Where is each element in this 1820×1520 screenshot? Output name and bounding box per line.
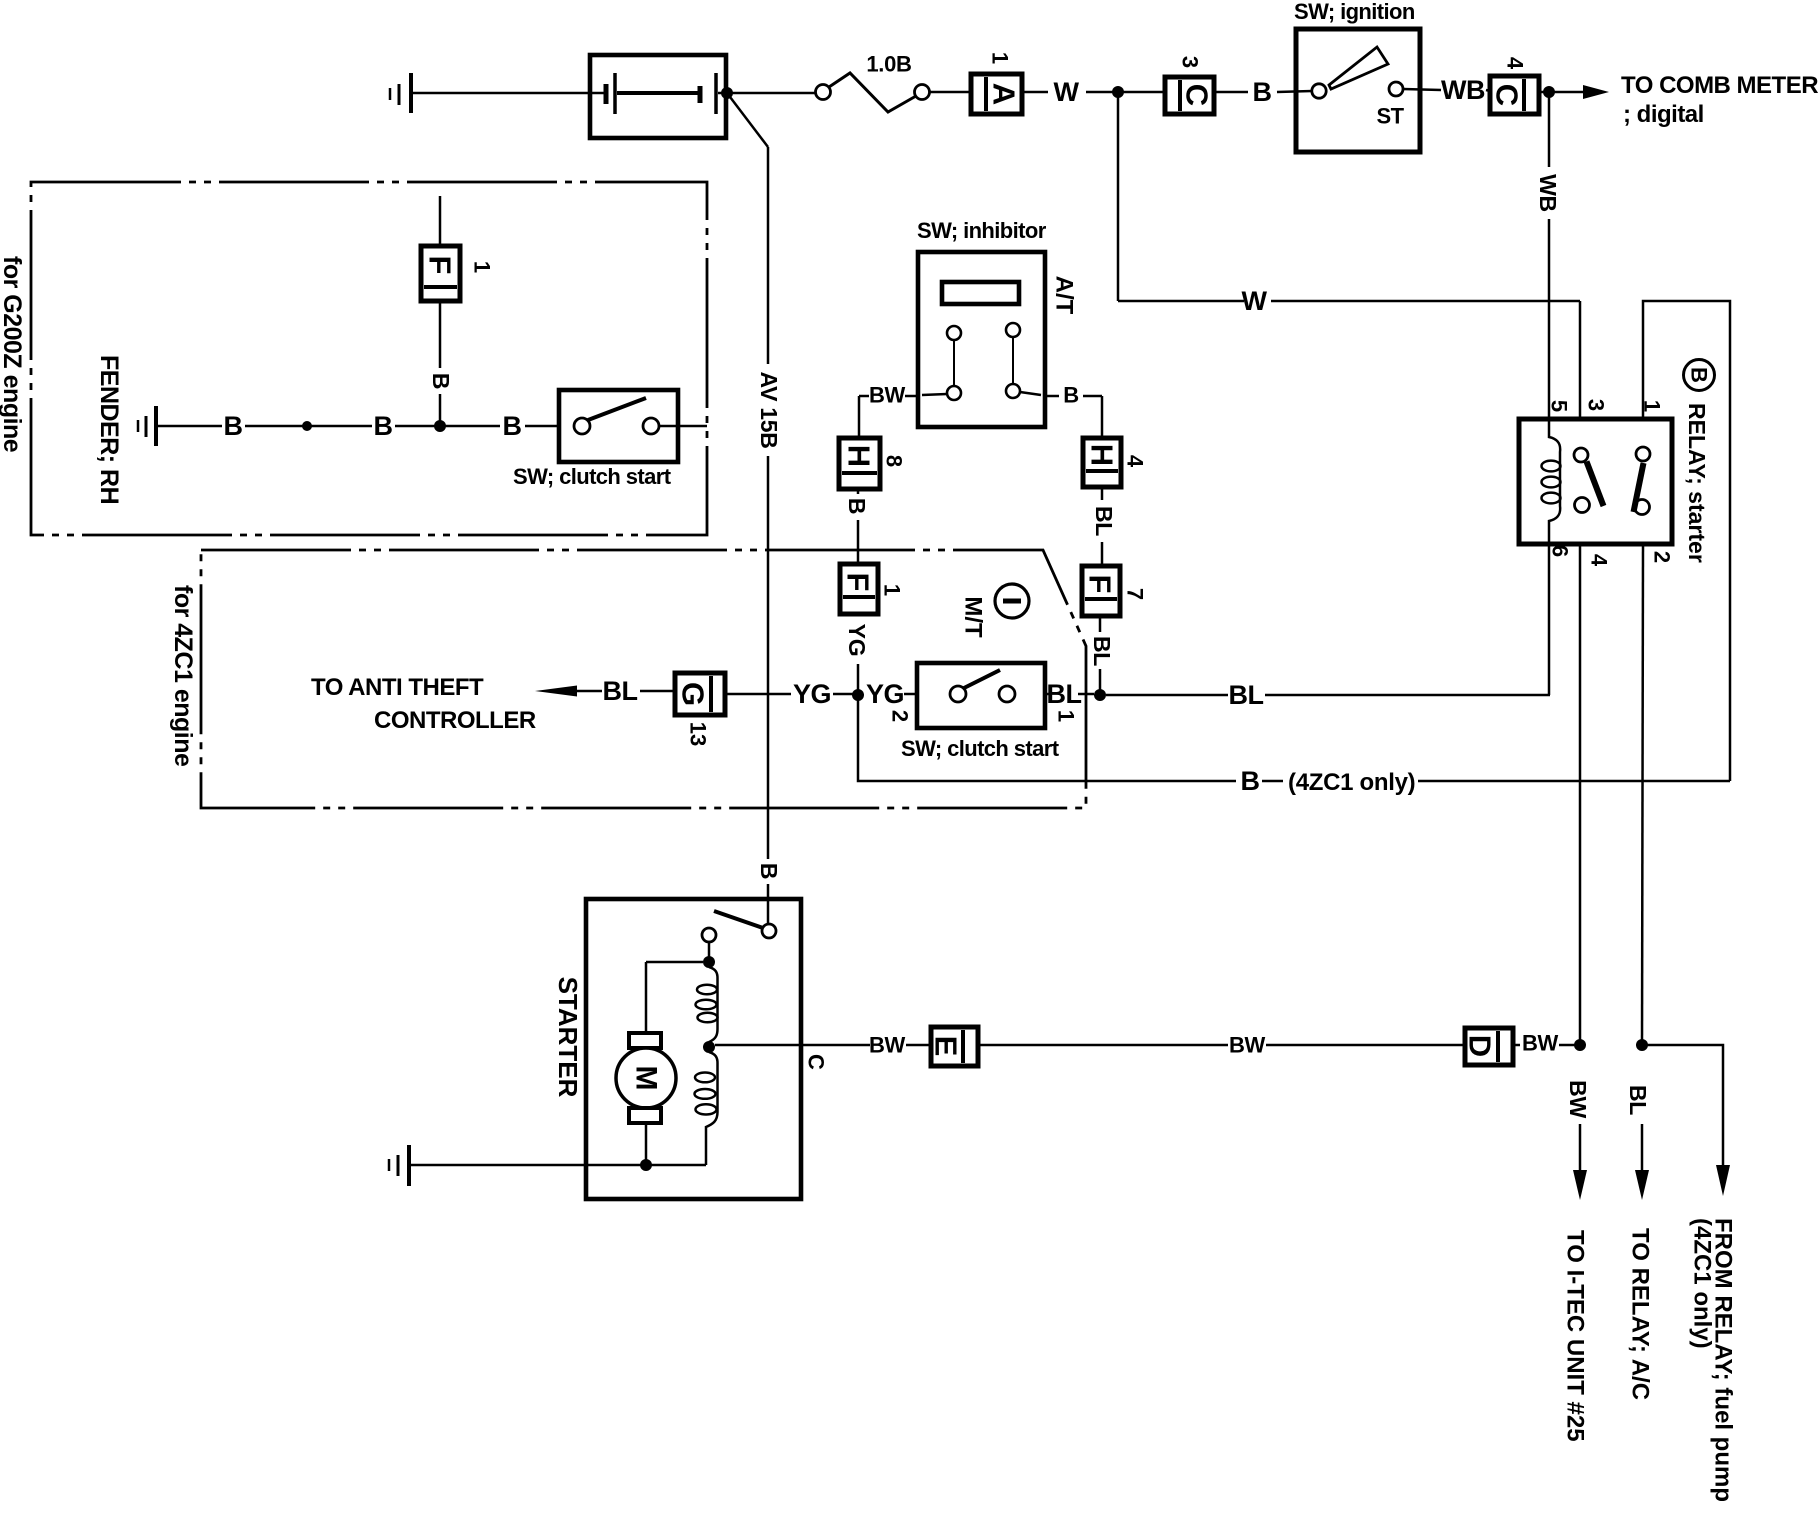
motor M [616,1033,676,1165]
wire relay pin 1 loop [1643,301,1730,781]
connector C pin 4 [1490,57,1540,114]
svg-text:13: 13 [686,722,711,746]
wire W branch to relay pin 3 [1118,97,1580,419]
wire battery to fusible link [718,92,815,95]
svg-text:BL: BL [603,676,638,706]
connector C pin 3 [1165,56,1215,114]
svg-text:W: W [1242,286,1268,316]
svg-text:SW; ignition: SW; ignition [1294,0,1415,24]
solenoid coil upper [696,967,718,1042]
svg-text:4: 4 [1587,554,1612,567]
svg-text:2: 2 [1650,551,1675,563]
wire link to connector A [930,91,971,94]
svg-text:A: A [987,83,1022,105]
relay coil [1542,419,1561,544]
svg-text:C: C [804,1054,829,1070]
wire H4 to F7, label BL [1091,487,1117,566]
svg-text:6: 6 [1548,545,1573,557]
wire relay pin 6 down [1548,544,1551,695]
svg-text:C: C [1180,84,1215,106]
svg-text:AV 15B: AV 15B [756,371,782,448]
wire H8 to inhibitor, label BW [859,383,918,439]
wire G13 to YG junction [725,679,858,709]
svg-text:WB: WB [1535,174,1561,212]
svg-text:8: 8 [882,455,907,467]
svg-text:(4ZC1 only): (4ZC1 only) [1288,769,1415,796]
arrow TO RELAY A/C [1625,1085,1654,1400]
STARTER box [586,899,801,1199]
node BW junction [1574,1039,1586,1051]
arrow TO COMB METER [1554,72,1818,128]
svg-text:BL: BL [1091,506,1117,536]
svg-text:TO I-TEC UNIT #25: TO I-TEC UNIT #25 [1562,1230,1589,1442]
dashed box for G200Z engine [31,182,707,535]
svg-text:M: M [630,1066,663,1091]
svg-text:B: B [1253,77,1272,107]
svg-text:W: W [1054,77,1080,107]
svg-text:B: B [1687,367,1712,383]
SW; inhibitor [917,218,1078,427]
svg-text:B: B [374,411,393,441]
SW; ignition [1294,0,1420,152]
wire relay pin 2 down [1642,544,1643,1045]
svg-text:BL: BL [1089,636,1115,666]
node fuse tap junction [434,420,446,432]
connector F pin 7 [1082,566,1148,616]
wire clutch to BL junction, label BL [1045,679,1094,709]
wire C terminal to E, labels C and BW [715,1033,931,1071]
svg-text:B: B [844,498,870,514]
svg-text:5: 5 [1547,400,1572,412]
ground (fender) [138,406,156,446]
svg-text:F: F [423,256,458,275]
svg-text:BW: BW [869,1033,906,1058]
fusible link 1.0B [816,52,930,113]
wire E to D, label BW [978,1033,1465,1058]
svg-text:C: C [1490,84,1525,106]
connector F pin 1 (M/T) [840,564,905,690]
svg-text:4: 4 [1123,455,1148,468]
wire ignition to C4, label WB [1403,75,1490,105]
node YG junction [852,689,864,701]
svg-text:BW: BW [1522,1031,1559,1056]
svg-text:BW: BW [1229,1033,1266,1058]
ground (battery, top-left) [390,73,411,113]
relay contact (pins 1-2) [1634,447,1651,515]
svg-text:YG: YG [866,679,904,709]
node solenoid C junction [703,1041,715,1053]
svg-text:for 4ZC1 engine: for 4ZC1 engine [169,585,197,767]
svg-text:B: B [503,411,522,441]
wire WB vertical to relay pin 5 [1535,97,1561,419]
svg-text:FENDER; RH: FENDER; RH [95,355,123,504]
svg-text:B: B [224,411,243,441]
svg-text:D: D [1463,1035,1498,1057]
svg-text:B: B [1241,766,1260,796]
relay B box [1519,419,1672,544]
wire to motor [646,962,703,1033]
ground (starter) [389,1145,409,1186]
relay contact (pins 3-4) [1574,448,1604,513]
battery [590,55,726,138]
svg-text:RELAY; starter: RELAY; starter [1684,403,1710,563]
svg-text:YG: YG [844,624,870,657]
svg-text:SW; clutch start: SW; clutch start [901,736,1060,761]
wire B (4ZC1 only) [858,700,1730,796]
node WB junction [1539,86,1555,98]
svg-text:H: H [842,445,877,467]
svg-text:H: H [1085,444,1120,466]
svg-text:4: 4 [1503,57,1528,70]
wire C3 to ignition, label B [1214,77,1312,107]
node BL junction [1094,689,1106,701]
svg-text:1.0B: 1.0B [866,52,911,77]
connector D [1463,1028,1514,1065]
starter switch contacts [702,911,776,957]
svg-text:SW; inhibitor: SW; inhibitor [917,218,1047,243]
svg-text:BW: BW [869,383,906,408]
svg-text:7: 7 [1123,588,1148,600]
svg-text:YG: YG [793,679,831,709]
wire F7 to BL junction [1089,616,1115,695]
svg-text:B: B [1063,383,1079,408]
svg-text:SW; clutch start: SW; clutch start [513,464,672,489]
connector G pin 13 [675,673,725,746]
SW; clutch start (G200Z) [513,390,707,489]
svg-text:(4ZC1 only): (4ZC1 only) [1689,1218,1716,1349]
connector E [929,1027,979,1066]
node W junction [1112,86,1124,98]
wire A to junction, label W [1022,77,1165,107]
I M/T circle [960,584,1030,638]
svg-text:B: B [756,863,782,879]
svg-text:1: 1 [1054,710,1079,722]
svg-text:1: 1 [470,261,495,273]
wire D to BW junction, label BW [1513,1031,1580,1056]
node BL arrow junction [1636,1039,1648,1051]
wire BL clutch to relay pin 6 [1106,680,1550,710]
svg-text:STARTER: STARTER [553,977,583,1098]
fuse F1 (G200Z) [421,196,495,426]
node motor ground junction [640,1159,652,1171]
dashed box for 4ZC1 engine [201,550,1086,808]
svg-text:for G200Z engine: for G200Z engine [0,256,26,453]
svg-text:; digital: ; digital [1623,101,1704,128]
svg-text:3: 3 [1584,399,1609,411]
svg-text:ST: ST [1377,104,1405,129]
wire starter ground bus [411,1164,706,1167]
svg-text:BL: BL [1625,1085,1651,1115]
svg-text:E: E [929,1036,964,1057]
connector A pin 1 [971,52,1022,114]
svg-text:TO ANTI THEFT: TO ANTI THEFT [311,674,484,701]
svg-text:G: G [676,682,711,706]
connector H pin 8 [839,438,907,489]
node battery + terminal [721,87,733,99]
solenoid coil lower [695,1052,718,1165]
node solenoid top junction [703,956,715,968]
svg-text:WB: WB [1441,75,1485,105]
node fender bus junction [302,421,312,431]
svg-text:BL: BL [1229,680,1264,710]
wire YG junction to clutch switch [866,679,917,709]
svg-text:BL: BL [1047,679,1082,709]
arrow FROM RELAY fuel pump [1647,1045,1737,1502]
svg-text:TO COMB METER: TO COMB METER [1621,72,1818,99]
svg-text:CONTROLLER: CONTROLLER [374,707,536,734]
wire relay pin 4 down [1579,544,1582,1045]
connector H pin 4 [1083,438,1148,487]
svg-text:B: B [428,373,454,389]
svg-text:A/T: A/T [1051,276,1078,315]
wire inhibitor to H4, label B [1045,383,1102,439]
svg-text:1: 1 [988,52,1013,64]
wire fender ground bus, labels B [158,411,559,441]
svg-text:F: F [841,573,876,592]
wire AV 15B battery to starter [727,93,782,924]
svg-text:BW: BW [1565,1080,1591,1118]
wire ground to battery [413,92,604,95]
svg-text:2: 2 [888,710,913,722]
arrow TO ANTI THEFT CONTROLLER [311,674,675,734]
svg-text:F: F [1083,575,1118,594]
svg-text:TO RELAY; A/C: TO RELAY; A/C [1627,1228,1654,1400]
wire F1 to H8, label B [844,489,870,564]
svg-text:M/T: M/T [960,596,987,638]
SW; clutch start (M/T) [888,663,1079,761]
svg-text:3: 3 [1178,56,1203,68]
svg-text:1: 1 [880,584,905,596]
relay label B RELAY; starter [1684,360,1715,563]
arrow TO I-TEC UNIT [1562,1080,1592,1441]
